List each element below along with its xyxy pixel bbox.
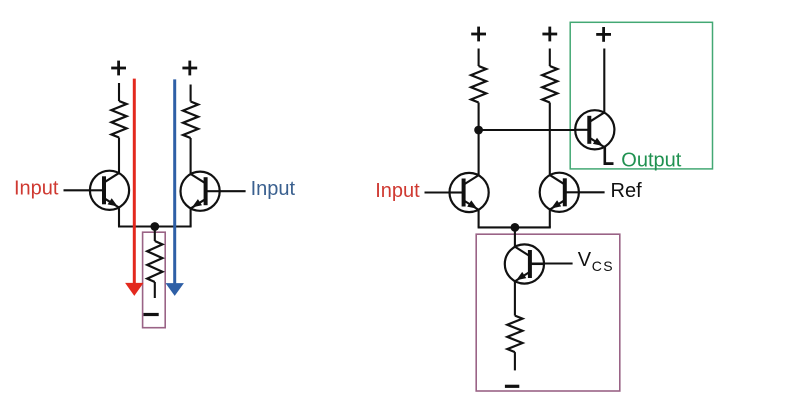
- wire node A to Q5 base: [479, 129, 591, 131]
- wire Q1 emitter down: [118, 207, 120, 226]
- blue current arrow (right input current path): [173, 79, 176, 283]
- wire Q4 emitter down: [549, 209, 551, 227]
- transistor Q1 (left input): [90, 171, 129, 210]
- transistor Q2 (right input, mirrored): [181, 172, 220, 211]
- node: emitters junction: [150, 222, 159, 231]
- wire from + to resistor R2: [190, 85, 192, 102]
- node A (collector junction): [474, 126, 483, 135]
- resistor R4 (input collector load): [471, 66, 486, 103]
- power node + (right circuit, left branch): [471, 33, 486, 36]
- svg-text:CS: CS: [592, 258, 614, 274]
- power node + (right circuit, middle branch): [542, 33, 557, 36]
- wire base of Q1 to Input label: [64, 189, 106, 191]
- transistor Q4 (ref, mirrored): [540, 173, 579, 212]
- wire junction down to Q6 collector: [514, 227, 516, 247]
- purple box around tail resistor (left circuit): [143, 232, 166, 328]
- power node + (left circuit, left branch): [111, 67, 126, 70]
- wire emitter bus (right circuit): [478, 226, 551, 228]
- wire + to resistor R5: [549, 49, 551, 67]
- wire junction to tail resistor R3: [154, 227, 156, 242]
- red current arrow (left input current path): [133, 79, 136, 284]
- resistor R5 (ref collector load): [542, 66, 557, 103]
- wire Q6 emitter down to resistor R6: [514, 281, 516, 316]
- transistor Q6 (current source, mirrored): [505, 244, 544, 283]
- resistor R6 (current source degeneration): [507, 316, 522, 353]
- power node + (left circuit, right branch): [182, 67, 197, 70]
- wire emitter bus: [118, 225, 192, 227]
- wire + to resistor R4: [478, 49, 480, 67]
- wire Q5 emitter down: [603, 147, 606, 164]
- purple box around current source (right circuit): [476, 234, 620, 391]
- svg-text:Input: Input: [14, 178, 59, 200]
- wire base of Q2 to Input label: [204, 190, 246, 192]
- svg-text:V: V: [578, 249, 592, 271]
- resistor R1 (left collector load): [111, 101, 126, 138]
- resistor R2 (right collector load): [183, 102, 198, 139]
- resistor R3 (tail): [147, 241, 162, 282]
- wire R1 to Q1 collector: [118, 138, 120, 174]
- ground (right circuit): [505, 385, 519, 388]
- node: emitter junction (right circuit): [511, 223, 520, 232]
- output terminal stub: [604, 162, 614, 165]
- wire from + to resistor R1: [118, 83, 120, 101]
- wire R3 to ground: [154, 282, 156, 298]
- wire Q4 base to Ref label: [563, 191, 604, 193]
- svg-text:Output: Output: [621, 150, 681, 172]
- wire + to Q5 collector: [603, 49, 605, 113]
- svg-text:Ref: Ref: [611, 180, 643, 202]
- wire R4 to node A: [478, 103, 480, 176]
- power node + (output stage): [596, 33, 611, 36]
- transistor Q3 (input, right circuit): [450, 173, 489, 212]
- green box around output stage: [570, 22, 712, 169]
- wire Q3 emitter down: [478, 210, 480, 228]
- ground (left circuit): [144, 313, 159, 316]
- svg-text:Input: Input: [251, 178, 296, 200]
- wire Q3 base to Input label: [425, 191, 466, 193]
- wire Q6 base to Vcs label: [528, 262, 572, 264]
- wire R5 to Q4 collector: [549, 103, 551, 176]
- wire R6 to ground: [514, 352, 516, 370]
- wire R2 to Q2 collector: [190, 138, 192, 174]
- transistor Q5 (output): [575, 110, 614, 149]
- wire Q2 emitter down: [190, 208, 192, 226]
- svg-text:Input: Input: [375, 180, 420, 202]
